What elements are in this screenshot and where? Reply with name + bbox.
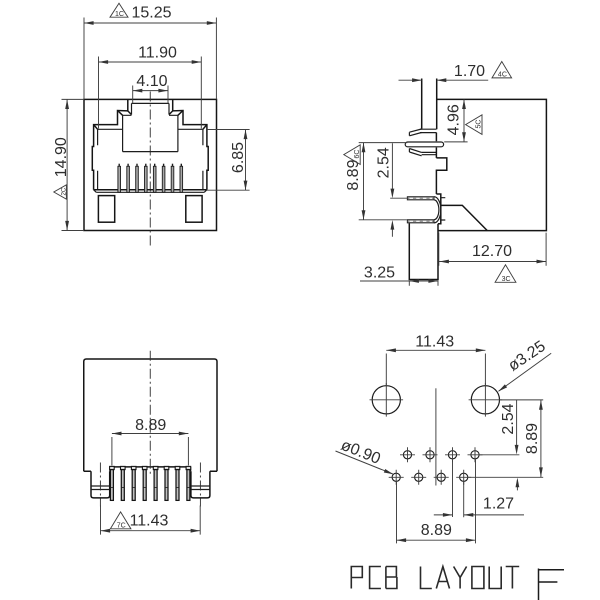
dimension 8.89 (pcb right) <box>468 400 543 477</box>
solder pin 3 (rear) <box>131 466 136 500</box>
rear view body outline <box>84 359 217 471</box>
svg-text:6C: 6C <box>354 150 361 159</box>
opening inner silhouette notch top <box>132 102 170 104</box>
dimension 11.90 <box>99 45 202 129</box>
letter P <box>351 567 362 589</box>
mounting hole left <box>370 383 404 417</box>
svg-text:14.90: 14.90 <box>53 137 70 177</box>
letter A <box>436 567 449 589</box>
contact pin 5 (front view) <box>153 164 156 193</box>
triangle note 6C <box>344 145 361 165</box>
svg-text:11.43: 11.43 <box>415 334 454 351</box>
pcb peg <box>409 223 438 279</box>
triangle note 7C <box>110 512 130 530</box>
right flange centerline <box>199 463 201 507</box>
solder pin 6 (rear) <box>164 466 169 500</box>
rear view vertical centerline <box>149 351 151 474</box>
dimension 12.70 <box>439 233 546 266</box>
front view vertical centerline <box>149 92 151 247</box>
opening outer silhouette right <box>173 99 209 189</box>
svg-text:3C: 3C <box>502 276 511 283</box>
lower contact leg <box>407 220 434 223</box>
right board-lock post <box>186 196 202 223</box>
dimension 2.54 (side) <box>376 143 409 237</box>
triangle note 1C <box>110 3 128 18</box>
tab bottom double lines <box>420 129 437 132</box>
letter T <box>506 567 520 589</box>
title PCB LAYOUT (CAD stencil letters) <box>351 567 519 589</box>
right flange <box>191 471 210 498</box>
title block corner mark <box>539 569 565 600</box>
upper latch hook <box>409 129 421 136</box>
svg-text:2.54: 2.54 <box>376 147 393 178</box>
contact pin 1 (front view) <box>118 164 121 193</box>
svg-text:3.25: 3.25 <box>364 265 395 282</box>
contact bend <box>434 197 441 223</box>
front face segments <box>435 133 437 158</box>
letter U <box>489 567 501 589</box>
svg-text:15.25: 15.25 <box>131 5 171 22</box>
svg-text:1.27: 1.27 <box>483 495 514 512</box>
body bottom chamfer <box>441 205 488 230</box>
svg-text:11.90: 11.90 <box>138 45 177 62</box>
svg-text:ø0.90: ø0.90 <box>338 437 382 468</box>
left board-lock post <box>98 196 114 223</box>
opening inner silhouette right <box>169 103 203 189</box>
diameter label 3.25 with leader <box>497 338 551 393</box>
front view outer housing box <box>84 99 217 230</box>
letter L <box>421 567 432 589</box>
svg-text:1C: 1C <box>115 11 124 18</box>
triangle note 5C <box>466 115 483 135</box>
letter C <box>370 567 381 589</box>
dimension 15.25 <box>84 5 216 100</box>
letter Y <box>454 567 467 589</box>
front panel tab <box>422 79 437 130</box>
contact slot lines <box>441 198 446 220</box>
svg-text:8.89: 8.89 <box>421 522 452 539</box>
dimension 6.85 <box>207 130 250 191</box>
triangle note 4C <box>492 62 512 79</box>
pin hole row lower (1,3,5,7) <box>389 470 472 485</box>
dimension 4.10 <box>133 73 168 104</box>
svg-text:4.10: 4.10 <box>136 73 167 90</box>
dimension 8.89 (rear) <box>112 417 188 466</box>
svg-text:ø3.25: ø3.25 <box>505 338 549 375</box>
contact pin 7 (front view) <box>171 164 174 193</box>
mounting hole right <box>469 383 503 417</box>
dimension 11.43 (rear) <box>101 506 201 535</box>
solder pin 5 (rear) <box>153 466 158 500</box>
dimension 2.54 (pcb) <box>479 400 543 491</box>
opening inner silhouette left <box>98 103 132 189</box>
svg-text:4C: 4C <box>498 72 507 79</box>
svg-text:4.96: 4.96 <box>445 104 462 135</box>
triangle note 2C <box>54 185 68 199</box>
latch spring loop <box>405 142 443 147</box>
dimension 8.89 (side) <box>345 143 407 220</box>
dimension 3.25 <box>360 265 438 286</box>
dimension 14.90 <box>53 99 84 230</box>
dimension 1.27 <box>434 459 524 517</box>
dimension 1.70 <box>399 63 489 82</box>
svg-text:1.70: 1.70 <box>454 63 485 80</box>
triangle note 3C <box>495 265 516 283</box>
contact pin 6 (front view) <box>162 164 165 193</box>
lower latch double lines <box>422 152 437 154</box>
letter O <box>472 567 484 589</box>
svg-text:2.54: 2.54 <box>500 403 517 434</box>
contact pin 8 (front view) <box>180 164 183 193</box>
solder pin 4 (rear) <box>142 466 147 500</box>
opening outer silhouette left <box>92 99 128 189</box>
solder pin 7 (rear) <box>175 466 180 500</box>
rear body bottom edges <box>84 467 217 471</box>
svg-text:2C: 2C <box>60 187 67 195</box>
svg-text:6.85: 6.85 <box>230 142 247 173</box>
contact pin 3 (front view) <box>136 164 139 193</box>
letter B <box>386 567 397 589</box>
side view body outline <box>437 99 547 230</box>
pcb vertical centerline <box>435 388 437 485</box>
left flange <box>91 471 110 498</box>
pin hole row upper (2,4,6,8) <box>400 447 483 462</box>
dimension 8.89 (pcb bottom) <box>397 459 476 543</box>
front face bump <box>436 158 446 194</box>
svg-text:11.43: 11.43 <box>130 513 169 530</box>
cavity floor lines <box>94 189 207 191</box>
diameter label 0.90 with leader <box>336 437 395 476</box>
solder pin 2 (rear) <box>121 466 126 500</box>
solder pin 8 (rear) <box>186 466 191 500</box>
chamfer bevels <box>94 111 207 130</box>
svg-text:8.89: 8.89 <box>524 423 541 454</box>
dimension 11.43 (pcb) <box>386 334 485 386</box>
svg-text:12.70: 12.70 <box>472 243 512 260</box>
svg-text:7C: 7C <box>117 523 126 530</box>
svg-text:8.89: 8.89 <box>135 417 166 434</box>
lower latch hook <box>409 149 421 156</box>
upper contact leg <box>407 197 434 200</box>
solder pin 1 (rear) <box>110 466 115 500</box>
center channel floor <box>123 151 178 153</box>
contact recess <box>436 194 440 224</box>
contact pin 4 (front view) <box>145 164 148 193</box>
contact pin 2 (front view) <box>127 164 130 193</box>
dimension 4.96 <box>444 99 467 141</box>
left flange centerline <box>99 463 101 507</box>
svg-text:5C: 5C <box>476 120 483 129</box>
